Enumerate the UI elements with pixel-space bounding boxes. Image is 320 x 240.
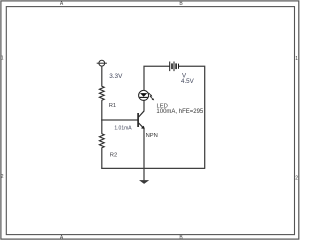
wire bottom rail <box>101 167 205 169</box>
battery V 4.5V <box>170 62 179 72</box>
wire power to R1 <box>101 66 103 86</box>
svg-text:1.01mA: 1.01mA <box>114 125 132 131</box>
transistor Q1 NPN <box>137 111 145 129</box>
svg-text:2: 2 <box>1 174 4 180</box>
power flag 3.3V <box>97 60 107 66</box>
svg-text:R2: R2 <box>110 152 117 158</box>
resistor R2 <box>99 134 104 148</box>
wire battery to right rail <box>179 66 205 168</box>
LED D1 <box>139 90 155 100</box>
wire R2 to bottom rail <box>101 148 103 169</box>
resistor R1 <box>99 86 104 100</box>
ground <box>139 168 149 184</box>
wire emitter to bottom rail <box>143 128 145 168</box>
svg-text:1: 1 <box>295 56 298 62</box>
LED emission arrow 1 <box>149 93 152 96</box>
LED emission arrow 2 <box>150 96 153 99</box>
wire base (node to transistor base) <box>101 119 138 121</box>
svg-text:4.5V: 4.5V <box>181 78 195 85</box>
wire collector to LED <box>143 100 145 111</box>
svg-text:2: 2 <box>295 175 298 181</box>
wire R1 to node to R2 <box>101 100 103 134</box>
svg-text:R1: R1 <box>109 103 116 109</box>
wire LED anode up and over to battery <box>144 66 169 90</box>
svg-text:3.3V: 3.3V <box>109 73 123 80</box>
svg-text:1: 1 <box>1 55 4 61</box>
svg-text:NPN: NPN <box>146 133 158 139</box>
svg-text:100mA, hFE=295: 100mA, hFE=295 <box>156 109 204 115</box>
